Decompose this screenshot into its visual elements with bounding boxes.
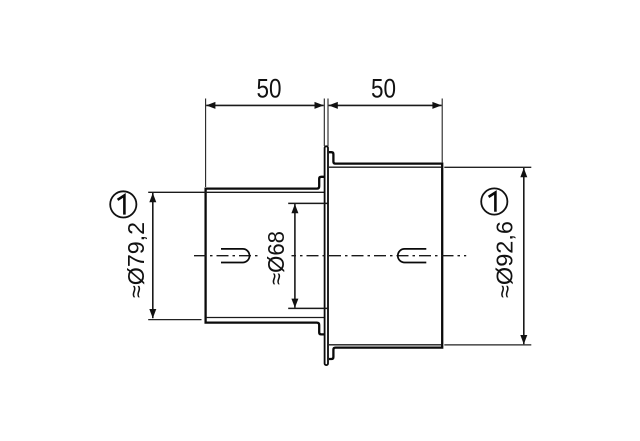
extension line flange right face [327, 99, 329, 147]
flange plate [325, 146, 328, 365]
callout circle 1 (left) [110, 191, 136, 217]
right pipe inner wall line bottom [329, 344, 441, 346]
left pipe outline [206, 177, 325, 335]
white mask behind Ø68 text [261, 229, 292, 286]
centerline (dash-dot axis) [194, 255, 466, 257]
dimension line 50 (right segment) [329, 104, 442, 106]
left pipe inner wall line bottom [206, 317, 325, 319]
right pipe inner wall line top [329, 166, 441, 168]
dimension line Ø68 (vertical, middle) [294, 204, 296, 308]
right slot [398, 249, 426, 263]
svg-text:≈Ø79,2: ≈Ø79,2 [123, 222, 149, 298]
right pipe outline [329, 152, 442, 359]
dimension line 50 (left segment) [206, 104, 324, 106]
dimension line Ø79,2 (vertical, left) [152, 193, 154, 318]
left pipe inner wall line top (continues left as extension line) [148, 191, 324, 193]
svg-text:50: 50 [371, 74, 396, 104]
extension line Ø92,6 top [444, 166, 531, 168]
extension line flange left face [323, 99, 325, 147]
left slot [221, 249, 250, 263]
extension line Ø92,6 bottom [444, 344, 531, 346]
dimension line Ø92,6 (vertical, right) [523, 168, 525, 344]
svg-text:≈Ø92,6: ≈Ø92,6 [492, 221, 518, 298]
callout circle 1 (right) [481, 188, 507, 214]
extension line left pipe end (for 50 dim) [205, 99, 207, 188]
extension line Ø68 bottom [288, 307, 327, 309]
extension line right pipe end [441, 99, 443, 163]
extension line for Ø79,2 bottom [148, 319, 201, 321]
extension line Ø68 top [288, 202, 327, 204]
svg-text:≈Ø68: ≈Ø68 [263, 231, 289, 285]
svg-text:50: 50 [257, 74, 282, 104]
